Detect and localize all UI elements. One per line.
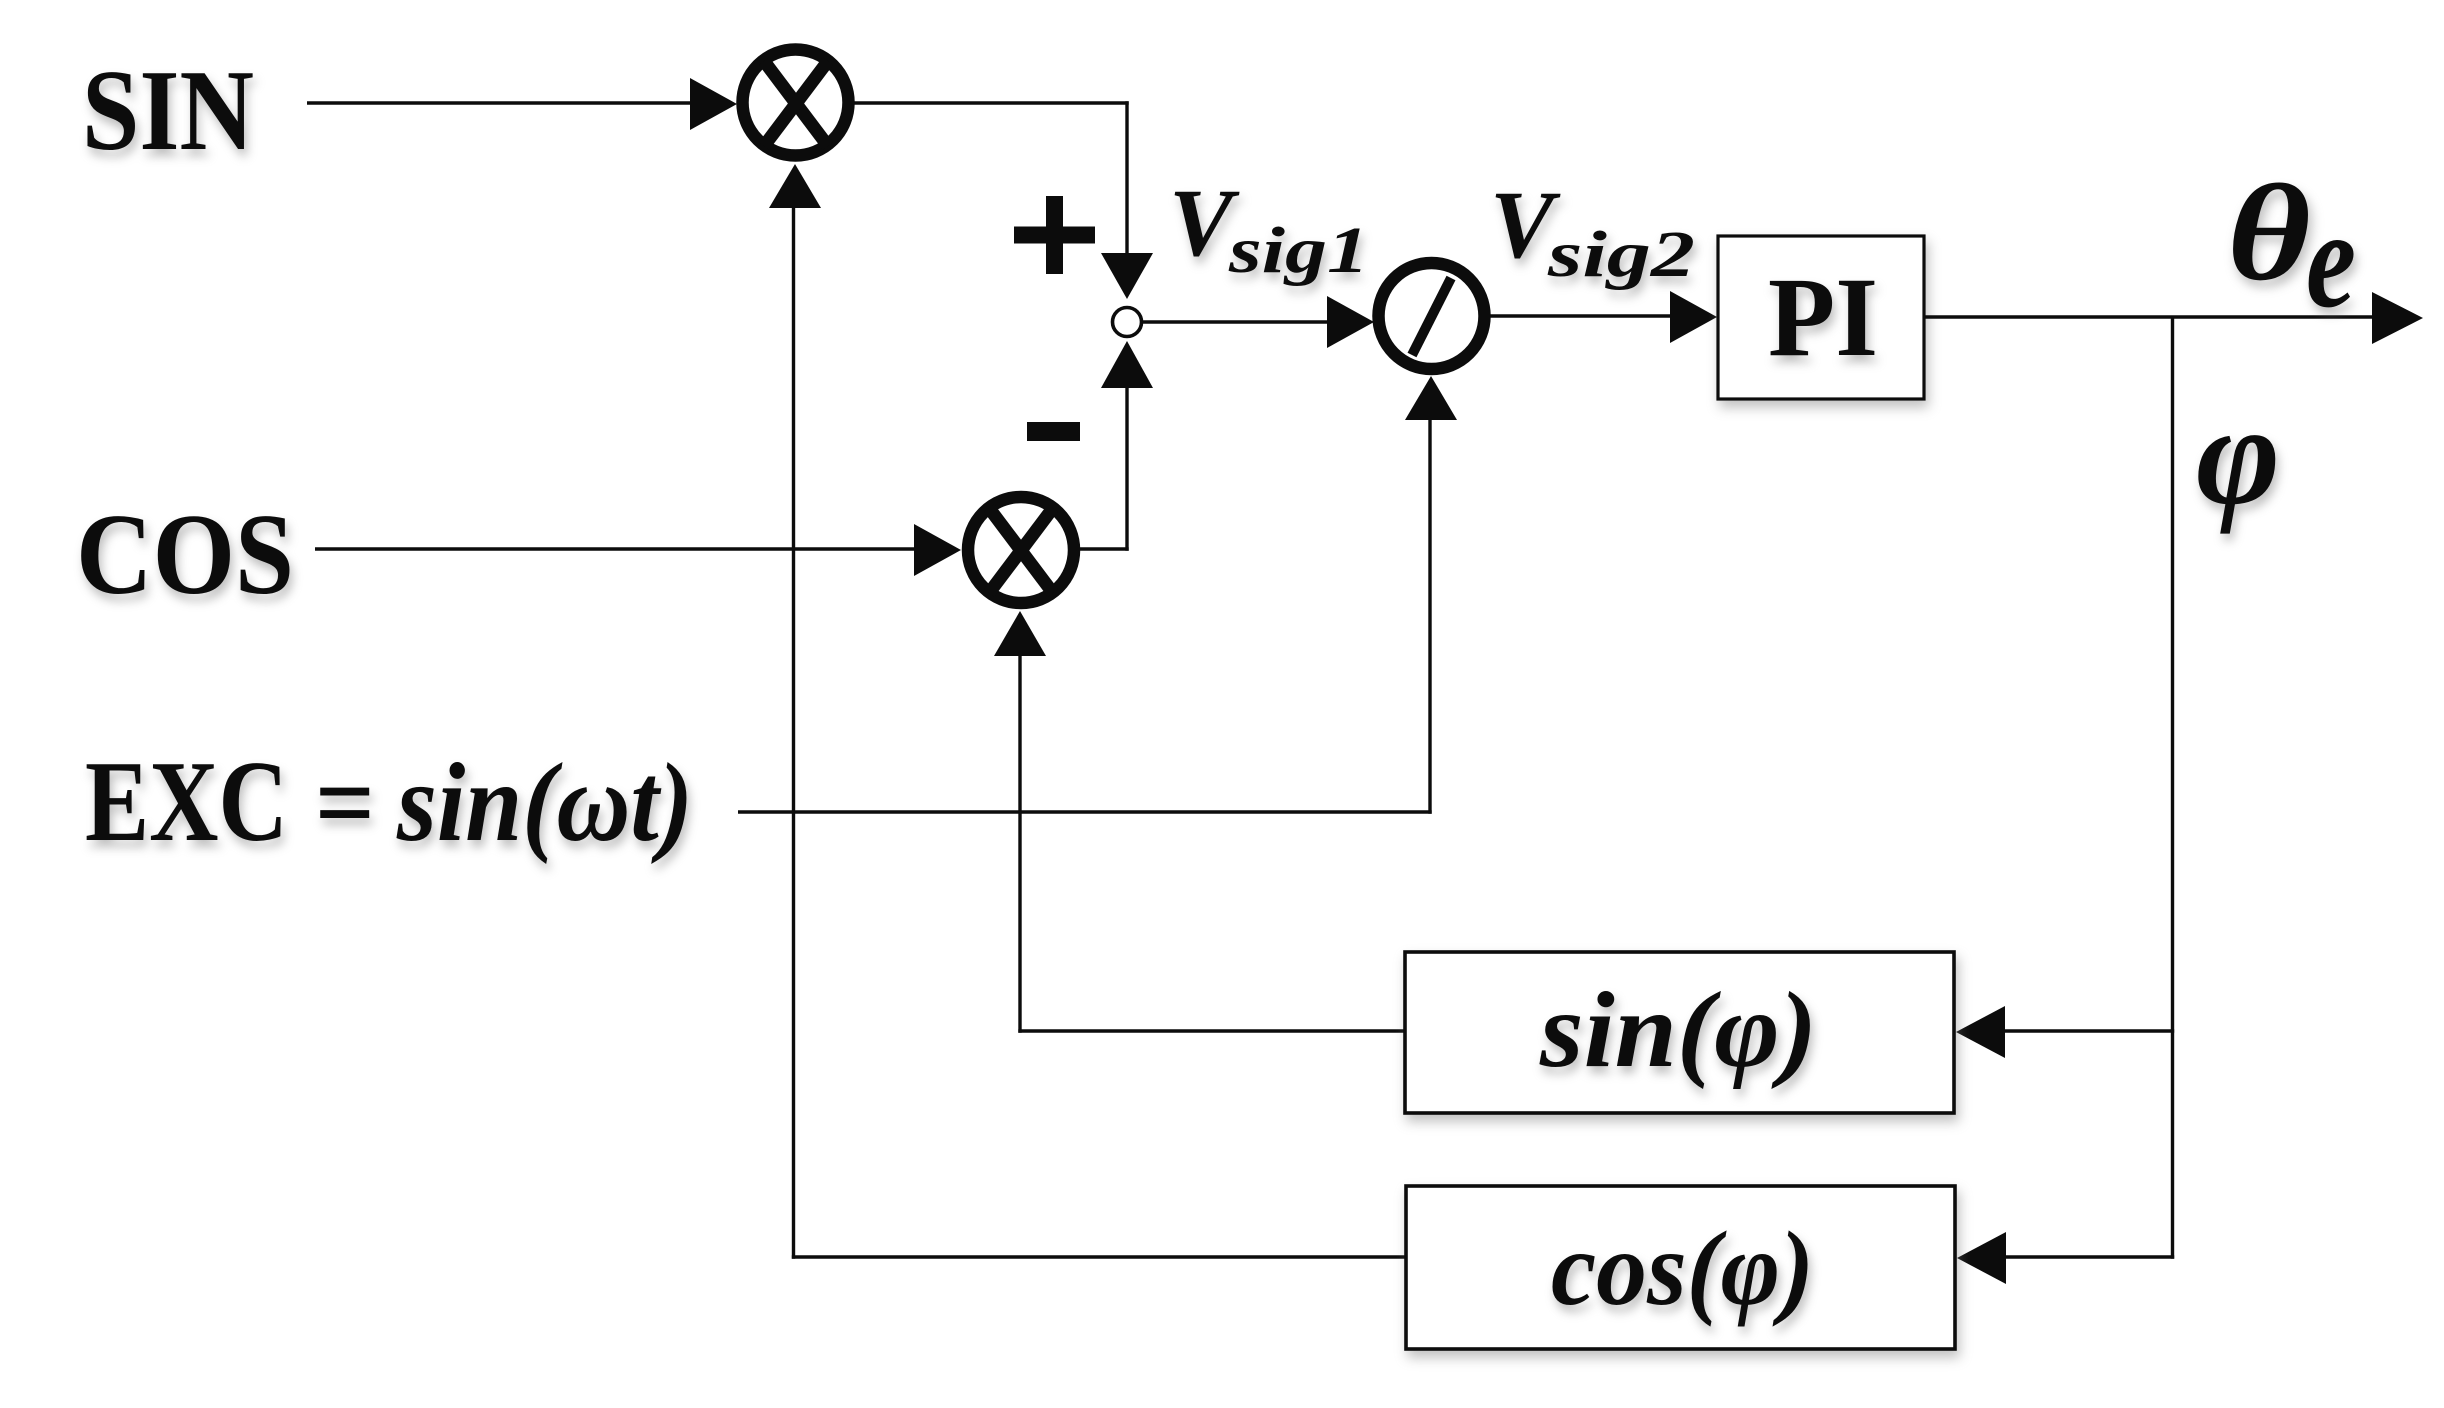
minus sign	[1027, 422, 1080, 441]
divider D1	[1379, 263, 1485, 369]
wire EXC horizontal	[738, 810, 1432, 813]
multiplier M2	[968, 497, 1074, 603]
svg-text:θ: θ	[2227, 157, 2311, 310]
arrowhead into multiplier M1	[690, 78, 737, 130]
PI controller block	[1718, 236, 1924, 399]
wire into cos box	[2006, 1255, 2174, 1258]
svg-text:sin(φ): sin(φ)	[1539, 971, 1817, 1090]
wire M2 lower feedback vertical	[1018, 656, 1021, 1033]
svg-text:sig1: sig1	[1228, 214, 1369, 287]
multiplier M1 X symbol	[764, 61, 828, 146]
arrowhead up into M1 bottom	[769, 164, 821, 208]
arrowhead into cos box	[1957, 1232, 2006, 1284]
wire COS input	[315, 547, 918, 550]
svg-text:sig2: sig2	[1547, 218, 1695, 291]
arrowhead into sin box	[1956, 1006, 2005, 1058]
summing node junction circle	[1113, 308, 1142, 337]
plus sign at summing node	[1014, 227, 1095, 244]
sin(phi) block	[1405, 952, 1954, 1113]
multiplier M2 X symbol	[989, 508, 1053, 593]
wire feedback vertical phi	[2171, 317, 2174, 1259]
svg-text:sin(ωt): sin(ωt)	[396, 741, 693, 865]
svg-text:EXC: EXC	[85, 738, 288, 866]
wire into sin box	[2005, 1029, 2174, 1032]
arrowhead output theta_e	[2372, 292, 2423, 344]
wire SIN input	[307, 101, 694, 104]
wire EXC vertical up to divider	[1428, 420, 1431, 814]
wire PI output	[1924, 315, 2372, 318]
arrowhead up into summing node from below	[1101, 341, 1153, 388]
arrowhead into divider	[1327, 296, 1374, 348]
arrowhead up into divider bottom	[1405, 376, 1457, 420]
wire divider output	[1484, 314, 1674, 317]
cos(phi) block	[1406, 1186, 1955, 1349]
wire summing node output	[1141, 320, 1331, 323]
wire M1 output vertical down to summing node	[1125, 101, 1128, 255]
arrowhead into PI block	[1670, 291, 1717, 343]
wire cos feedback horizontal to cos box	[792, 1255, 1406, 1258]
multiplier M1	[743, 50, 849, 156]
arrowhead into multiplier M2	[914, 524, 961, 576]
svg-text:PI: PI	[1768, 255, 1878, 380]
wire from M2 up to summing node	[1125, 388, 1128, 551]
svg-text:e: e	[2306, 182, 2356, 337]
arrowhead down into summing node	[1101, 253, 1153, 299]
wire M1 lower feedback vertical	[792, 208, 795, 1259]
wire sin feedback horizontal to sin box	[1018, 1029, 1405, 1032]
svg-text:SIN: SIN	[82, 47, 254, 175]
wire M2 output horizontal	[1074, 547, 1129, 550]
wire M1 output horizontal	[848, 101, 1129, 104]
svg-text:=: =	[315, 741, 375, 865]
arrowhead up into M2 bottom	[994, 611, 1046, 656]
svg-text:cos(φ): cos(φ)	[1551, 1210, 1814, 1327]
svg-text:COS: COS	[76, 491, 294, 619]
svg-text:φ: φ	[2196, 376, 2280, 535]
divider slash symbol	[1412, 278, 1451, 355]
